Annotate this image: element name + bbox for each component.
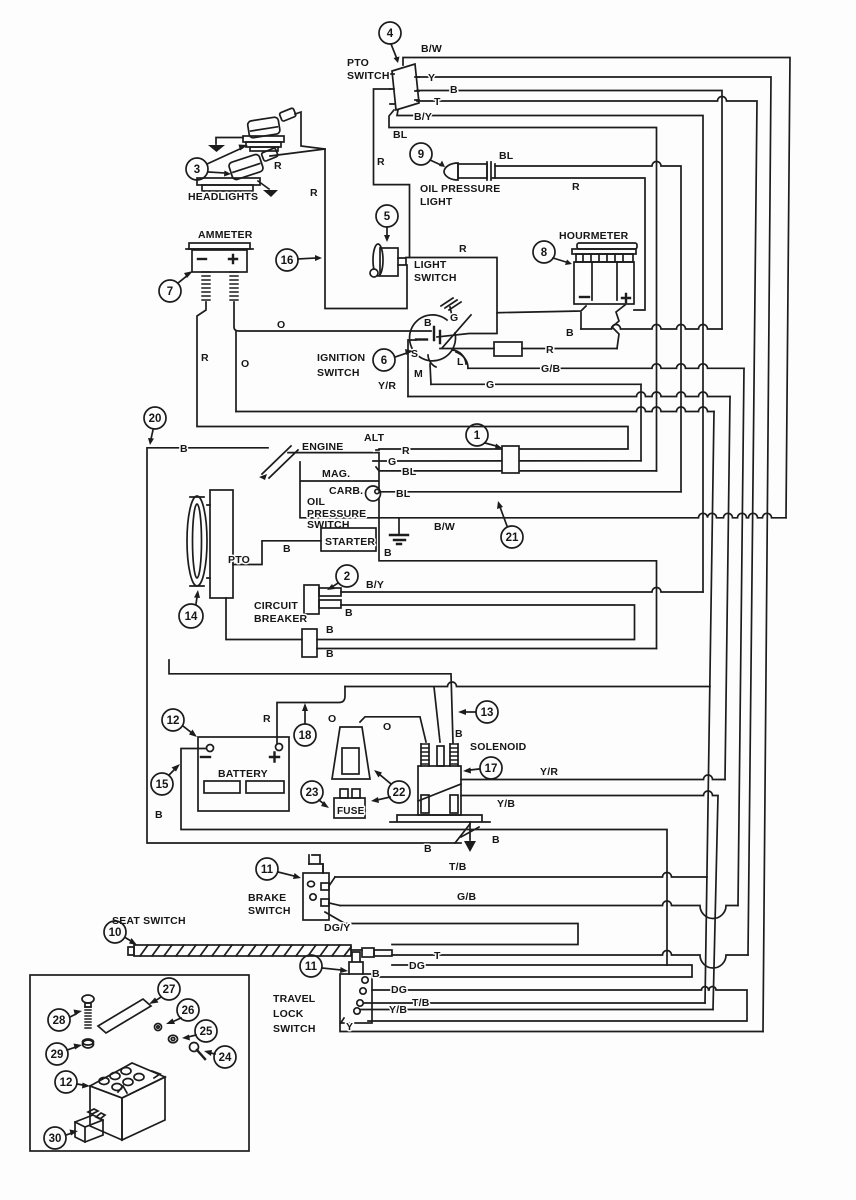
hourmeter M2 — [572, 243, 637, 304]
ignition switch S3 body — [410, 315, 471, 367]
callout 12 inset — [55, 1071, 90, 1093]
svg-text:B: B — [424, 843, 432, 855]
wire G/B (ignition L to brake) — [456, 352, 468, 368]
seat switch S5 — [128, 945, 392, 957]
svg-text:SOLENOID: SOLENOID — [470, 741, 527, 753]
callout 4 — [379, 22, 401, 63]
ammeter M1 — [186, 243, 253, 300]
wire R (oil light to hourmeter) — [492, 178, 645, 310]
svg-text:O: O — [241, 358, 249, 370]
svg-text:15: 15 — [156, 779, 169, 791]
wire DG (travel to right return) — [368, 987, 747, 1022]
svg-text:BL: BL — [499, 150, 514, 162]
nut (26) — [155, 1024, 162, 1031]
oil pressure light DS2 — [444, 162, 495, 180]
svg-text:S: S — [411, 348, 418, 360]
svg-text:22: 22 — [393, 787, 406, 799]
callout 10 — [104, 921, 137, 945]
callout 16 — [276, 249, 322, 271]
svg-text:T: T — [434, 96, 441, 108]
battery 3d (12) — [90, 1063, 165, 1140]
svg-text:28: 28 — [53, 1015, 66, 1027]
callout 17 — [463, 757, 502, 779]
callout 30 — [44, 1127, 78, 1149]
callout 18 — [294, 703, 316, 746]
svg-text:B: B — [455, 728, 463, 740]
callout 26 — [166, 999, 199, 1024]
brake switch S4 — [303, 855, 329, 920]
svg-text:B/W: B/W — [434, 521, 455, 533]
wire B (connector to engine ground riser) — [317, 648, 657, 650]
PTO switch S1 body — [390, 64, 419, 110]
wire O (battery top loop) — [345, 682, 710, 687]
callout 11 travel — [300, 955, 348, 977]
svg-text:G: G — [388, 456, 396, 468]
wire hourmeter minus lead — [497, 306, 586, 313]
connector (PTO clutch leads) — [302, 629, 317, 657]
svg-text:G: G — [486, 379, 494, 391]
svg-text:L: L — [457, 356, 464, 368]
svg-text:12: 12 — [60, 1077, 73, 1089]
svg-text:27: 27 — [163, 984, 176, 996]
svg-text:T: T — [434, 950, 441, 962]
svg-text:30: 30 — [49, 1133, 62, 1145]
svg-text:23: 23 — [306, 787, 319, 799]
wire DG/Y (brake to seat switch) — [325, 912, 578, 945]
wire R (light switch to ignition) — [406, 258, 497, 338]
svg-text:LOCK: LOCK — [273, 1008, 304, 1020]
svg-text:R: R — [402, 445, 410, 457]
svg-text:B/Y: B/Y — [366, 579, 384, 591]
wire B ground loop left — [147, 448, 470, 843]
wire B (starter to PTO clutch) — [233, 541, 321, 565]
svg-text:25: 25 — [200, 1026, 213, 1038]
svg-text:MAG.: MAG. — [322, 468, 350, 480]
svg-text:BATTERY: BATTERY — [218, 768, 268, 780]
wire R (PTO to light switch) — [374, 89, 410, 258]
wire T (seat to riser) — [392, 951, 748, 969]
wire BL (engine to riser) — [376, 467, 657, 471]
svg-text:SWITCH: SWITCH — [307, 519, 350, 531]
circuit breaker CB1 — [304, 585, 341, 614]
wire Y/B (travel to solenoid return) — [361, 1009, 713, 1011]
callout 27 — [149, 978, 180, 1004]
callout 29 — [46, 1043, 82, 1065]
hold-down bar (27) — [98, 999, 151, 1033]
headlamp upper — [243, 108, 296, 151]
callout 2 — [327, 565, 358, 590]
callout 11 brake — [256, 858, 301, 880]
wire B (PTO to hourmeter via right bus) — [417, 91, 722, 330]
solenoid ground arrow — [461, 822, 479, 852]
svg-text:M: M — [414, 368, 423, 380]
callout 3 — [186, 145, 248, 181]
fuse F1 — [334, 789, 365, 818]
svg-text:B: B — [345, 607, 353, 619]
svg-text:B: B — [283, 543, 291, 555]
wire S (ignition S to solenoid) — [408, 340, 416, 397]
callout 9 — [410, 143, 445, 167]
wire Y (PTO to right bus) — [417, 77, 771, 1032]
wire R with resistor (ignition to hourmeter plus) — [440, 348, 618, 350]
svg-text:10: 10 — [109, 927, 122, 939]
svg-text:29: 29 — [51, 1049, 64, 1061]
wire G/B (brake to riser) — [329, 903, 340, 906]
svg-text:B: B — [424, 317, 432, 329]
wire BL (oil pressure switch to light) — [380, 491, 681, 493]
svg-text:SWITCH: SWITCH — [273, 1023, 316, 1035]
callout 7 — [159, 271, 193, 302]
svg-text:R: R — [546, 344, 554, 356]
ignition ground symbol — [441, 298, 461, 316]
callout 12 — [162, 709, 197, 737]
headlight ground stub lower — [258, 181, 278, 197]
callout 1 — [466, 424, 502, 449]
svg-text:TRAVEL: TRAVEL — [273, 993, 316, 1005]
callout 8 — [533, 241, 572, 265]
wire O (boot to solenoid posts) — [360, 717, 426, 742]
engine terminal dots — [350, 448, 376, 488]
svg-text:IGNITION: IGNITION — [317, 352, 365, 364]
nut (29) — [83, 1039, 94, 1048]
svg-text:G/B: G/B — [541, 363, 560, 375]
bolt (28) — [82, 995, 94, 1028]
svg-text:11: 11 — [261, 864, 274, 876]
svg-text:R: R — [377, 156, 385, 168]
svg-text:R: R — [274, 160, 282, 172]
svg-text:20: 20 — [149, 413, 162, 425]
wire headlamp lower lead — [270, 149, 325, 156]
wire R (battery plus riser) — [277, 687, 345, 745]
wire T/B (travel to riser return) — [364, 1002, 705, 1004]
svg-text:B: B — [372, 968, 380, 980]
wire hourmeter plus zigzag — [612, 305, 625, 349]
svg-text:18: 18 — [299, 730, 312, 742]
svg-text:OIL: OIL — [307, 496, 325, 508]
callout 24 — [204, 1046, 236, 1068]
resistor R1 — [494, 342, 522, 356]
connector 1 over engine wires — [502, 446, 519, 473]
svg-text:R: R — [572, 181, 580, 193]
svg-text:B: B — [180, 443, 188, 455]
PTO clutch body — [210, 490, 233, 598]
callout 21 — [497, 501, 523, 548]
svg-text:Y: Y — [428, 72, 435, 84]
svg-text:SWITCH: SWITCH — [414, 272, 457, 284]
svg-text:R: R — [310, 187, 318, 199]
svg-text:5: 5 — [384, 211, 391, 223]
svg-text:R: R — [263, 713, 271, 725]
svg-text:ENGINE: ENGINE — [302, 441, 343, 453]
wire T (PTO to seat switch via right bus) — [417, 97, 757, 956]
svg-text:BL: BL — [396, 488, 411, 500]
svg-text:B/W: B/W — [421, 43, 442, 55]
callout 5 — [376, 205, 398, 242]
svg-text:R: R — [201, 352, 209, 364]
headlamp lower — [197, 148, 278, 191]
starter motor — [321, 528, 376, 551]
callout 20 — [144, 407, 166, 445]
callout 6 — [373, 349, 413, 371]
engine block outline — [259, 446, 379, 518]
callout 22 — [371, 770, 410, 803]
svg-text:LIGHT: LIGHT — [414, 259, 447, 271]
wire Y (travel to PTO return) — [340, 1018, 763, 1032]
wire B/W (PTO top to right bus) — [403, 58, 790, 518]
svg-text:B: B — [326, 648, 334, 660]
wire G (ignition M to engine) — [430, 364, 431, 384]
svg-text:Y/B: Y/B — [389, 1004, 407, 1016]
wire O (ammeter to ignition B) — [234, 302, 431, 331]
svg-text:G/B: G/B — [457, 891, 476, 903]
svg-text:Y/R: Y/R — [540, 766, 558, 778]
svg-text:1: 1 — [474, 430, 481, 442]
wire R (engine alt) — [376, 449, 379, 451]
svg-text:HOURMETER: HOURMETER — [559, 230, 629, 242]
svg-text:B/Y: B/Y — [414, 111, 432, 123]
svg-text:8: 8 — [541, 247, 548, 259]
PTO pulley — [187, 496, 210, 586]
wire BL (oil light to oil pressure switch) — [495, 162, 681, 492]
svg-text:14: 14 — [185, 611, 198, 623]
svg-text:16: 16 — [281, 255, 294, 267]
svg-text:21: 21 — [506, 532, 519, 544]
svg-text:7: 7 — [167, 286, 173, 298]
plug (30) — [75, 1109, 105, 1142]
washer (25) — [169, 1035, 178, 1043]
wire B (to solenoid post) — [169, 660, 453, 743]
svg-text:PTO: PTO — [347, 57, 369, 69]
svg-text:6: 6 — [381, 355, 387, 367]
svg-text:SWITCH: SWITCH — [347, 70, 390, 82]
svg-text:B: B — [492, 834, 500, 846]
solenoid K1 — [390, 744, 490, 822]
callout 15 — [151, 764, 180, 795]
callout 25 — [182, 1020, 217, 1042]
wire BL (PTO to engine) — [389, 110, 657, 471]
svg-text:SWITCH: SWITCH — [317, 367, 360, 379]
svg-text:R: R — [459, 243, 467, 255]
svg-text:STARTER: STARTER — [325, 536, 375, 548]
wire Y/R (ammeter junction to brake riser) — [235, 331, 237, 412]
svg-text:3: 3 — [194, 164, 200, 176]
callout 14 — [179, 590, 203, 628]
svg-text:2: 2 — [344, 571, 350, 583]
headlight ground stub upper — [208, 138, 243, 153]
battery terminal boot — [332, 727, 370, 779]
svg-text:O: O — [383, 721, 391, 733]
callout 13 — [458, 701, 498, 723]
svg-text:O: O — [277, 319, 285, 331]
wire Y/R (solenoid to ignition S riser) — [461, 775, 725, 780]
wire Y/B (solenoid to travel lock riser) — [461, 791, 718, 1009]
svg-text:B: B — [326, 624, 334, 636]
svg-text:O: O — [328, 713, 336, 725]
callout 28 — [48, 1009, 82, 1031]
svg-text:ALT: ALT — [364, 432, 385, 444]
svg-text:24: 24 — [219, 1052, 232, 1064]
svg-text:13: 13 — [481, 707, 494, 719]
svg-text:11: 11 — [305, 961, 318, 973]
wire B/Y (breaker to riser) — [341, 588, 703, 593]
svg-text:T/B: T/B — [412, 997, 430, 1009]
svg-text:B: B — [384, 547, 392, 559]
wire B/Y (PTO to circuit breaker) — [397, 110, 703, 592]
svg-text:BRAKE: BRAKE — [248, 892, 286, 904]
svg-text:DG/Y: DG/Y — [324, 922, 350, 934]
wire clutch to lower connector — [226, 598, 302, 640]
svg-text:B: B — [155, 809, 163, 821]
inset parts box — [30, 975, 249, 1151]
svg-text:4: 4 — [387, 28, 394, 40]
svg-text:DG: DG — [409, 960, 425, 972]
battery B1 — [198, 737, 289, 811]
callout 23 — [301, 781, 329, 808]
engine ground symbol — [390, 519, 408, 544]
wire DG (seat to travel lock U) — [375, 965, 692, 977]
wire B (engine to lower connector riser) — [379, 519, 657, 649]
svg-text:CIRCUIT: CIRCUIT — [254, 600, 298, 612]
svg-text:G: G — [450, 312, 458, 324]
svg-text:DG: DG — [391, 984, 407, 996]
svg-text:9: 9 — [418, 149, 424, 161]
svg-text:B: B — [450, 84, 458, 96]
wire B/W (engine ground to bus) — [379, 513, 786, 518]
wire B (hourmeter minus to bus) — [580, 313, 582, 329]
svg-text:17: 17 — [485, 763, 498, 775]
svg-text:HEADLIGHTS: HEADLIGHTS — [188, 191, 258, 203]
svg-text:26: 26 — [182, 1005, 195, 1017]
svg-text:FUSE: FUSE — [337, 806, 365, 817]
travel lock switch S6 — [340, 952, 372, 1023]
svg-text:12: 12 — [167, 715, 180, 727]
wire R (ammeter to engine R) — [197, 302, 628, 449]
svg-text:CARB.: CARB. — [329, 485, 363, 497]
wire B (breaker loop to lower connector) — [317, 605, 635, 640]
svg-text:Y/B: Y/B — [497, 798, 515, 810]
oil pressure switch (engine) — [366, 486, 381, 501]
svg-text:T/B: T/B — [449, 861, 467, 873]
wire B (battery minus to ground bus) — [181, 749, 667, 966]
wire B (ground bus right) — [455, 842, 461, 844]
screw (24) — [190, 1043, 206, 1060]
svg-text:BL: BL — [402, 466, 417, 478]
svg-text:Y: Y — [346, 1021, 353, 1033]
svg-text:BREAKER: BREAKER — [254, 613, 308, 625]
wire R (headlights to light switch loop) — [295, 112, 407, 309]
svg-text:B: B — [566, 327, 574, 339]
svg-text:PTO: PTO — [228, 554, 250, 566]
svg-text:SWITCH: SWITCH — [248, 905, 291, 917]
svg-text:AMMETER: AMMETER — [198, 229, 253, 241]
svg-text:Y/R: Y/R — [378, 380, 396, 392]
light switch S2 — [370, 244, 406, 277]
wire T/B (brake to riser) — [329, 877, 335, 886]
wire G (engine to riser) — [373, 460, 641, 462]
svg-text:OIL PRESSURE: OIL PRESSURE — [420, 183, 500, 195]
svg-text:BL: BL — [393, 129, 408, 141]
svg-text:LIGHT: LIGHT — [420, 196, 453, 208]
